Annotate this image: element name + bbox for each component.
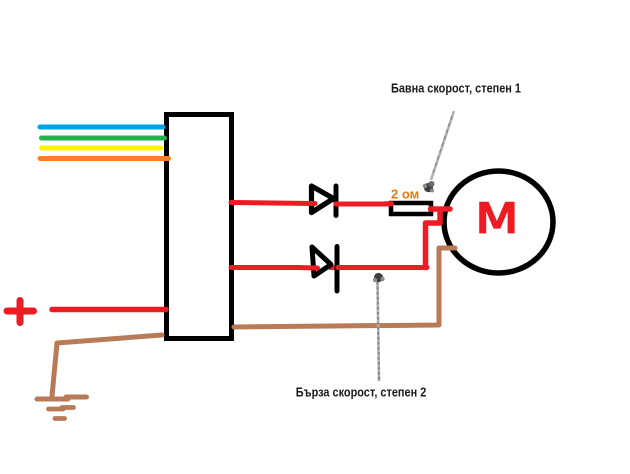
svg-text:2 ом: 2 ом bbox=[391, 187, 419, 202]
wire fast-speed branch (connector to diode D2) bbox=[231, 265, 300, 270]
wire blue input bbox=[40, 125, 163, 130]
wire green input bbox=[42, 136, 165, 141]
wire R1 to motor bbox=[426, 209, 451, 268]
node between D2 apex and cathode bbox=[329, 265, 337, 270]
wire junction down-step bbox=[426, 210, 441, 268]
battery + terminal bbox=[7, 301, 34, 323]
annotation arrow to R1 (slow speed) bbox=[423, 111, 454, 193]
wire into R1 pin bbox=[385, 201, 392, 206]
wire motor return (brown) bbox=[234, 248, 455, 327]
motor letter M bbox=[479, 202, 514, 234]
diode D1 bbox=[307, 186, 336, 216]
wire yellow input bbox=[42, 146, 162, 151]
wire slow-speed branch (connector to diode D1) bbox=[231, 203, 313, 204]
motor M bbox=[444, 171, 553, 273]
resistor R1 bbox=[391, 203, 431, 214]
diode D2 bbox=[298, 247, 337, 292]
ground symbol bbox=[37, 397, 87, 419]
wire D1 to resistor R1 bbox=[336, 202, 390, 207]
wire D2 to junction bbox=[338, 265, 427, 270]
svg-text:Бавна скорост, степен 1: Бавна скорост, степен 1 bbox=[391, 81, 521, 95]
connector block U1 bbox=[167, 115, 232, 339]
wire connector to ground (brown) bbox=[52, 335, 162, 396]
wire orange input bbox=[40, 156, 169, 161]
svg-text:Бърза скорост, степен 2: Бърза скорост, степен 2 bbox=[296, 386, 427, 400]
wire + supply to connector bbox=[52, 307, 166, 313]
annotation arrow to fast-speed wire bbox=[373, 273, 385, 381]
